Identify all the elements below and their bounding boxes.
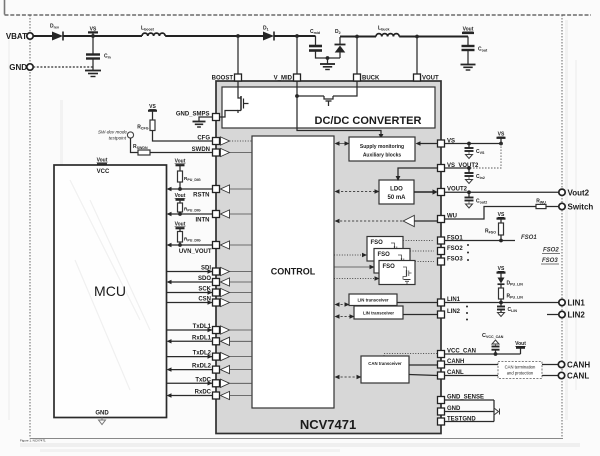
wire LIN1 to pin (397, 302, 438, 304)
ground at GND_SMPS (193, 117, 213, 127)
frame left border (29, 15, 31, 439)
transistor boost switch (238, 81, 249, 113)
svg-text:SW-dev mode: SW-dev mode (98, 130, 127, 135)
wire FSO1 (445, 239, 516, 243)
buffer TxDC (221, 379, 253, 387)
capacitor Cin (86, 36, 111, 70)
svg-text:and protection: and protection (507, 371, 534, 376)
pin UVN_VOUT (179, 242, 220, 256)
svg-text:VBAT: VBAT (6, 32, 27, 41)
block FSO2 (374, 249, 410, 274)
node VS supply symbol (88, 27, 98, 38)
svg-text:Switch: Switch (568, 203, 594, 212)
buffer SCK (221, 288, 253, 296)
wire UVN_VOUT (167, 243, 213, 247)
svg-text:Vout: Vout (175, 222, 186, 228)
wire Lboost to D1 (165, 35, 263, 37)
wire converter to supply monitor (297, 96, 383, 139)
pin CANH (438, 359, 465, 368)
terminal CANH (558, 361, 590, 370)
svg-text:GND: GND (9, 63, 27, 72)
svg-text:SWDN: SWDN (192, 147, 210, 153)
svg-text:FSO: FSO (383, 264, 396, 270)
wire RxDL2 (167, 367, 213, 371)
ground below Cout2 (466, 202, 473, 209)
pin VS (438, 139, 456, 148)
pin LIN1 (438, 297, 461, 306)
svg-text:BUCK: BUCK (362, 76, 380, 82)
wire VCC_CAN to Vout (445, 353, 521, 355)
node V_MID junction (295, 34, 299, 74)
wire LIN2 to pin (403, 314, 438, 316)
buffer RxDL2 (221, 366, 253, 374)
svg-text:V_MID: V_MID (274, 76, 293, 82)
svg-text:TxDL2: TxDL2 (193, 351, 212, 357)
net label FSO1 (521, 235, 537, 241)
ground below CLIN (498, 313, 505, 317)
svg-text:TxDL1: TxDL1 (193, 324, 212, 330)
wire CONTROL to CAN dashed arrows (335, 375, 362, 379)
capacitor Cout (462, 37, 489, 65)
ground below MCU (99, 418, 106, 425)
svg-text:GND: GND (95, 411, 109, 417)
wire VS to VS_VOUT2 dashed link (470, 144, 501, 169)
wire FSO3 out (415, 261, 434, 263)
wire D1 to Cmid (274, 35, 316, 37)
svg-text:CANH: CANH (567, 361, 590, 370)
svg-text:VS: VS (149, 104, 156, 110)
resistor RPU_LIN (499, 288, 524, 303)
resistor RPU_DIG 2 with Vout (175, 193, 201, 216)
svg-text:LIN2: LIN2 (447, 309, 461, 315)
svg-text:BOOST: BOOST (212, 76, 234, 82)
svg-text:TxDC: TxDC (195, 377, 211, 383)
pin FSO3 (438, 257, 464, 266)
svg-text:FSO3: FSO3 (542, 258, 558, 264)
pin RxDL2 (192, 364, 220, 374)
buffer SWDN (221, 148, 253, 156)
net label FSO3 (541, 258, 559, 264)
wire GND_SENSE (445, 399, 495, 401)
block CONTROL (252, 136, 334, 408)
svg-text:testpoint: testpoint (109, 136, 127, 141)
capacitor CVCC_CAN (482, 333, 504, 356)
wire buck switch to BUCK pin (333, 81, 357, 96)
resistor RSWDN (133, 144, 213, 155)
buffer TxDL1 (221, 326, 253, 334)
wire FSO1 out (403, 240, 434, 242)
block LDO 50mA (379, 180, 414, 204)
capacitor CVS (465, 144, 486, 156)
diode DPU_LIN (498, 278, 524, 289)
terminal Switch (559, 203, 594, 212)
inductor Lboost (141, 26, 165, 37)
pin SWDN (192, 147, 220, 156)
wire CAN to CANH pin (409, 364, 438, 366)
wire CONTROL to LIN1 dashed arrows (335, 302, 350, 306)
buffer TxDL2 (221, 353, 253, 361)
svg-text:Vout: Vout (515, 341, 526, 347)
pin BUCK (354, 74, 380, 82)
wire WU to CONTROL dashed (335, 219, 404, 223)
transistor buck switch (324, 96, 333, 106)
wire CANL to terminal (445, 375, 559, 377)
wire boost source to GND_SMPS (220, 111, 239, 118)
wire TxDL1 (167, 328, 213, 332)
testpoint switch (98, 130, 138, 153)
capacitor CLIN (497, 303, 517, 314)
node BOOST junction (236, 34, 240, 74)
ground below Cmid D2 (320, 56, 335, 69)
svg-text:WU: WU (447, 214, 457, 220)
svg-text:RxDL2: RxDL2 (192, 364, 212, 370)
pin VOUT2 (438, 187, 468, 196)
svg-text:50 mA: 50 mA (387, 195, 406, 201)
pin VOUT (414, 74, 440, 82)
pin VS_VOUT2 (438, 163, 480, 172)
pin WU (438, 214, 458, 223)
pin LIN2 (438, 309, 461, 318)
pin TxDC (195, 377, 219, 387)
svg-text:FSO: FSO (371, 240, 384, 246)
wire SDI (167, 269, 213, 273)
svg-text:CONTROL: CONTROL (271, 267, 316, 277)
svg-text:RSTN: RSTN (193, 193, 209, 199)
wire VOUT2 to terminal (445, 190, 559, 194)
resistor RPU_DIG 3 with Vout (175, 222, 201, 247)
svg-text:SCK: SCK (198, 287, 211, 293)
pin TxDL2 (193, 351, 220, 361)
wire TxDL2 (167, 354, 213, 358)
block supply monitoring (349, 137, 415, 161)
node VOUT junction (415, 35, 419, 74)
svg-text:VS: VS (498, 212, 505, 218)
terminal Vout2 (559, 189, 590, 198)
wire Lbuck to Cout (399, 36, 468, 38)
svg-text:VS: VS (498, 132, 505, 138)
wire INTN (167, 212, 213, 216)
wire VS rail (445, 142, 503, 146)
pin BOOST (212, 74, 242, 82)
pin RxDC (195, 390, 220, 400)
node dots FSO continuation (467, 244, 469, 261)
supply symbol VS right (497, 132, 506, 144)
pin GND (438, 406, 462, 415)
block LIN transceiver 1 (349, 294, 397, 306)
pin FSO2 (438, 246, 464, 255)
supply symbol Vout for VCC_CAN (515, 341, 526, 354)
svg-text:FSO3: FSO3 (447, 257, 463, 263)
frame right border (561, 15, 563, 439)
wire CONTROL to supply monitor double arrow (335, 141, 350, 145)
supply symbol Vout above Cout (462, 27, 474, 34)
wire SDO (167, 280, 213, 284)
buffer RSTN (221, 185, 253, 193)
svg-text:FSO2: FSO2 (543, 248, 559, 254)
IC NCV7471 body (216, 81, 441, 434)
pin GND_SENSE (438, 395, 485, 404)
capacitor Cout2 (465, 192, 488, 204)
svg-text:VOUT2: VOUT2 (447, 187, 468, 193)
svg-text:Auxiliary blocks: Auxiliary blocks (363, 153, 402, 159)
svg-text:SDO: SDO (198, 276, 211, 282)
svg-text:CSN: CSN (198, 297, 211, 303)
svg-text:CFG: CFG (197, 136, 210, 142)
net label FSO2 (542, 248, 560, 254)
pin CANL (438, 370, 464, 379)
wire TxDC (167, 381, 213, 385)
supply symbol VS for RCFG (148, 104, 157, 120)
wire CONTROL to LDO dashed double arrow (335, 189, 380, 193)
svg-text:RxDL1: RxDL1 (192, 335, 212, 341)
buffer UVN_VOUT (221, 241, 253, 249)
capacitor Cin2 (465, 168, 485, 180)
wire TESTGND (445, 421, 495, 423)
svg-text:Vout: Vout (175, 159, 186, 165)
svg-text:Vout: Vout (175, 193, 186, 199)
pin GND_SMPS (176, 112, 220, 121)
svg-text:LIN transceiver: LIN transceiver (363, 311, 394, 316)
svg-text:VCC: VCC (97, 169, 110, 175)
wire LDO to VOUT2 pin (414, 189, 438, 194)
svg-text:CAN transceiver: CAN transceiver (368, 361, 402, 366)
wire GND (445, 411, 495, 413)
svg-text:VS: VS (498, 266, 505, 272)
svg-text:DC/DC CONVERTER: DC/DC CONVERTER (315, 115, 422, 127)
terminal LIN2 (547, 311, 585, 320)
svg-text:NCV7471: NCV7471 (300, 417, 356, 432)
svg-text:LDO: LDO (390, 187, 403, 193)
wire RxDL1 (167, 339, 213, 343)
svg-text:Vout: Vout (463, 27, 474, 33)
svg-text:VOUT: VOUT (422, 76, 439, 82)
diode D2 (335, 29, 346, 58)
block LIN transceiver 2 (354, 306, 403, 319)
resistor RWU (445, 199, 559, 220)
buffer RxDC (221, 391, 253, 399)
terminal VBAT (6, 32, 33, 41)
svg-text:Figure 1. NCV7471: Figure 1. NCV7471 (20, 439, 46, 443)
svg-text:SDI: SDI (201, 266, 211, 272)
block FSO3 (379, 261, 415, 285)
inductor Lbuck (376, 26, 399, 37)
wire D2 to Lbuck (340, 36, 376, 38)
pin CFG (197, 136, 219, 145)
wire VS_VOUT2 out (445, 166, 471, 170)
svg-text:LIN transceiver: LIN transceiver (357, 298, 388, 303)
svg-text:VS: VS (90, 27, 97, 33)
buffer RxDL1 (221, 337, 253, 345)
supply symbol Vout above MCU (97, 158, 108, 166)
resistor RFSO (485, 223, 504, 241)
diode Drev (50, 24, 63, 41)
pin VCC_CAN (438, 349, 477, 358)
block FSO1 (367, 237, 403, 262)
wire CANH to terminal (445, 364, 559, 366)
block CAN termination (498, 362, 542, 379)
pin CSN (198, 297, 219, 307)
svg-text:LIN1: LIN1 (568, 299, 586, 308)
wire LIN1 to terminal (445, 301, 559, 305)
wire RSTN (167, 187, 213, 191)
pin SDI (201, 266, 220, 276)
pin SDO (198, 276, 220, 286)
svg-text:UVN_VOUT: UVN_VOUT (179, 249, 212, 255)
wire CAN to CANL pin (409, 375, 438, 376)
svg-text:Vout: Vout (97, 158, 108, 164)
ground join right (494, 400, 500, 422)
terminal LIN1 (559, 299, 586, 308)
supply symbol VS for RFSO (497, 212, 506, 223)
pin V_MID (274, 74, 301, 82)
block CAN transceiver (361, 356, 409, 383)
frame bottom border (30, 438, 563, 440)
frame top border (5, 14, 592, 16)
node dots LIN continuation (466, 306, 468, 321)
node BUCK junction (355, 35, 359, 74)
diode D1 (263, 26, 274, 41)
pin RSTN (193, 186, 219, 199)
svg-text:INTN: INTN (196, 218, 210, 224)
wire VS_VOUT2 to LDO (396, 168, 438, 181)
wire VBAT to Drev (33, 35, 52, 37)
svg-text:FSO: FSO (378, 252, 391, 258)
wire CONTROL to LIN2 dashed arrows (335, 314, 355, 318)
supply symbol VS for RPU_LIN (497, 266, 506, 278)
svg-text:Vout2: Vout2 (568, 189, 590, 198)
block MCU (54, 165, 167, 418)
pin TxDL1 (193, 324, 220, 334)
svg-text:Supply monitoring: Supply monitoring (360, 144, 404, 150)
wire CSN (167, 300, 213, 304)
wire Drev to Lboost (63, 35, 142, 37)
svg-text:CANL: CANL (567, 372, 589, 381)
wire FSO2 out (410, 250, 434, 252)
buffer CFG (221, 137, 253, 145)
resistor RPU_DIG 1 with Vout (175, 159, 201, 191)
ground below CVS (466, 152, 473, 159)
buffer SDO (221, 278, 253, 286)
terminal GND (9, 63, 33, 72)
svg-text:LIN2: LIN2 (568, 311, 586, 320)
svg-text:FSO1: FSO1 (521, 235, 537, 241)
resistor RCFG (137, 120, 212, 141)
svg-text:RxDC: RxDC (195, 390, 212, 396)
frame corner artifact (4, 0, 6, 15)
pin RxDL1 (192, 335, 220, 345)
svg-text:CAN termination: CAN termination (505, 365, 536, 370)
wire CONTROL to FSO arrows (334, 253, 380, 281)
wire VS pin to supply monitor (416, 141, 438, 145)
pin INTN (196, 211, 220, 224)
buffer SDI (221, 267, 253, 275)
capacitor Cmid (309, 29, 340, 58)
terminal CANL (558, 372, 589, 381)
pin SCK (198, 287, 219, 297)
buffer CSN (221, 298, 253, 306)
ground below Cout (461, 65, 476, 71)
ground below Cin2 (466, 177, 473, 184)
buffer WU (403, 215, 437, 226)
wire V_MID into converter (295, 81, 324, 98)
block DC/DC converter (222, 87, 435, 128)
svg-text:MCU: MCU (94, 283, 126, 299)
wire RxDC (167, 393, 213, 397)
wire CAN to VCC_CAN dotted (384, 354, 438, 357)
buffer INTN (221, 210, 253, 218)
caption text bottom-left (20, 439, 46, 443)
pin TESTGND (438, 417, 477, 426)
pin FSO1 (438, 236, 464, 245)
svg-text:FSO2: FSO2 (447, 246, 463, 252)
wire GND dashed to Cin ground (33, 66, 93, 68)
wire SCK (167, 290, 213, 294)
ground below Cin (85, 71, 101, 77)
